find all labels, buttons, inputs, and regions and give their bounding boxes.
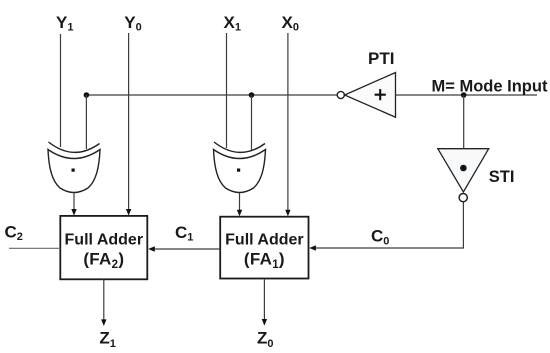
- svg-text:Z1: Z1: [99, 328, 116, 350]
- svg-text:(FA1): (FA1): [244, 249, 285, 271]
- svg-text:STI: STI: [489, 168, 515, 186]
- wire X0 input: [287, 33, 289, 211]
- xor gate G2 (left, inputs Y1 and M) body: [48, 150, 100, 193]
- svg-text:C0: C0: [371, 227, 389, 248]
- wire PTI output to M: [396, 94, 538, 96]
- wire G2 output to FA2: [73, 193, 75, 211]
- xor gate G2 input arc: [49, 142, 100, 152]
- wire branch to right gate: [251, 95, 253, 150]
- wire branch to left gate: [85, 95, 87, 149]
- inverter PTI input bubble: [337, 91, 344, 98]
- xor gate G2 center dot: [72, 169, 75, 172]
- wire Z0 output from FA1: [263, 279, 265, 321]
- xor gate G1 input arc: [214, 142, 265, 152]
- svg-text:M= Mode Input: M= Mode Input: [432, 78, 548, 96]
- arrowhead G2 output: [71, 209, 76, 216]
- svg-text:C2: C2: [5, 222, 23, 243]
- arrowhead C0 into FA1: [309, 245, 316, 250]
- junction dot at left gate branch: [84, 92, 90, 98]
- svg-text:(FA2): (FA2): [83, 249, 124, 271]
- inverter PTI triangle: [345, 73, 396, 118]
- arrowhead Z0: [262, 319, 267, 326]
- wire mode bus horizontal: [86, 94, 337, 96]
- wire C1 from FA1 to FA2: [154, 248, 221, 250]
- svg-text:Y0: Y0: [124, 13, 141, 34]
- arrowhead C1 into FA2: [148, 246, 155, 251]
- wire Z1 output from FA2: [103, 279, 105, 321]
- inverter STI center dot: [460, 165, 467, 172]
- arrowhead Y0 into FA2: [126, 209, 131, 216]
- xor gate G1 center dot: [237, 169, 240, 172]
- inverter STI triangle: [438, 149, 489, 192]
- arrowhead X0 into FA1: [285, 210, 290, 217]
- svg-text:PTI: PTI: [368, 49, 394, 68]
- wire G1 output to FA1: [239, 193, 241, 211]
- arrowhead G1 output: [237, 210, 242, 217]
- svg-text:Y1: Y1: [56, 13, 73, 34]
- junction dot at right gate branch: [249, 92, 255, 98]
- svg-text:Z0: Z0: [257, 328, 274, 350]
- svg-text:X0: X0: [282, 13, 299, 34]
- inverter PTI plus sign: [375, 89, 386, 100]
- wire C0 from STI to FA1: [315, 202, 464, 248]
- wire M to STI: [463, 95, 465, 148]
- junction dot M branch: [461, 92, 467, 98]
- full adder FA1 box: [220, 217, 308, 279]
- wire Y1 input: [60, 34, 62, 147]
- wire Y0 input: [128, 33, 130, 211]
- arrowhead Z1: [101, 319, 106, 326]
- full adder FA2 box: [60, 216, 147, 279]
- wire X1 input: [226, 33, 228, 148]
- svg-text:Full Adder: Full Adder: [65, 232, 144, 249]
- wire C2 carry-out from FA2: [9, 247, 60, 249]
- svg-text:Full Adder: Full Adder: [225, 232, 304, 249]
- svg-text:C1: C1: [175, 223, 193, 244]
- svg-text:X1: X1: [224, 13, 241, 34]
- xor gate G1 (right, inputs X1 and M) body: [214, 150, 266, 193]
- inverter STI output bubble: [459, 194, 467, 202]
